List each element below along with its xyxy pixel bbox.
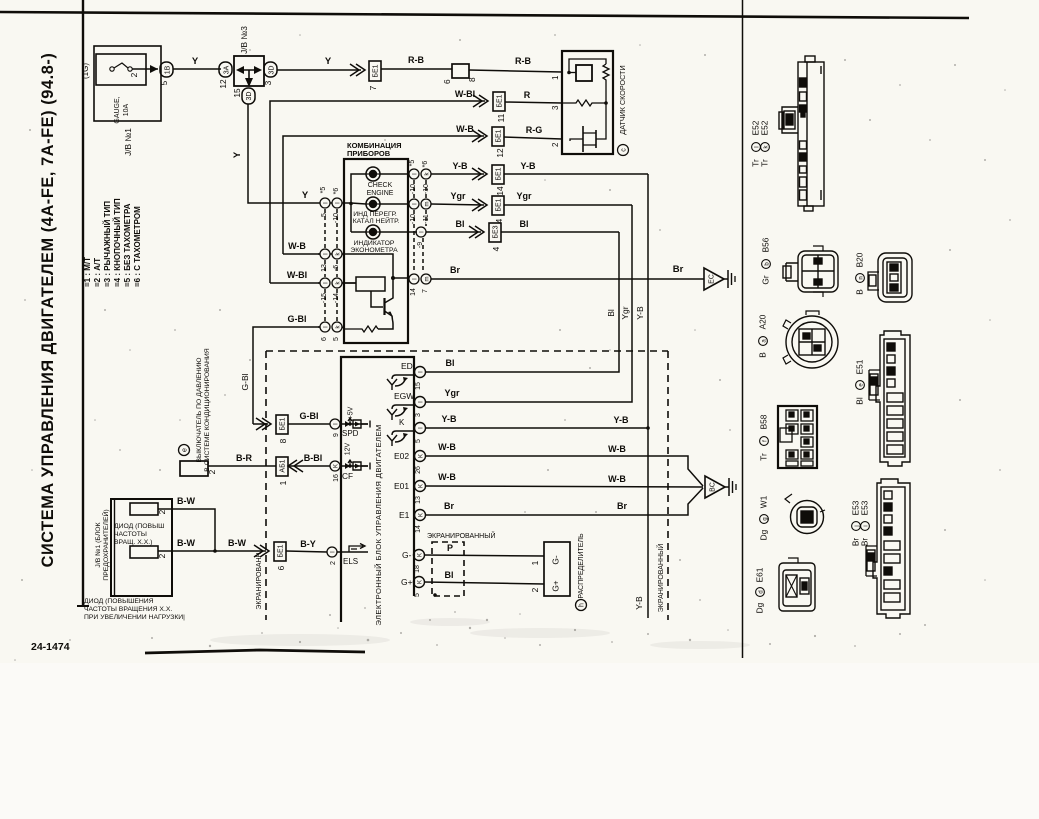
- svg-text:R-G: R-G: [526, 125, 543, 135]
- svg-text:E52: E52: [760, 120, 770, 135]
- wire W-B to cluster pin 13: [283, 253, 320, 255]
- svg-text:3A: 3A: [224, 65, 231, 74]
- svg-text:G-: G-: [551, 555, 561, 564]
- svg-text:26: 26: [415, 466, 422, 474]
- connector code e: [179, 445, 190, 456]
- svg-text:E53: E53: [860, 500, 870, 515]
- wire W-BI row (to sensor pin 3): [270, 89, 562, 283]
- svg-text:ПРИ УВЕЛИЧЕНИИ НАГРУЗКИ|: ПРИ УВЕЛИЧЕНИИ НАГРУЗКИ|: [84, 614, 185, 621]
- joint box: [452, 64, 469, 78]
- svg-text:G-Bl: G-Bl: [288, 314, 307, 324]
- svg-text:2: 2: [129, 72, 139, 77]
- wire G-Bl to SPD: [253, 406, 370, 455]
- svg-text:1: 1: [530, 560, 540, 565]
- svg-text:B: B: [855, 289, 865, 295]
- svg-text:5: 5: [333, 337, 340, 341]
- top border line: [0, 12, 969, 18]
- connector code h: [576, 600, 587, 611]
- wire W-B from E02 to BC ground: [426, 456, 703, 486]
- wire Bl from G+ to distributor pin 2: [424, 582, 544, 584]
- svg-text:B: B: [758, 352, 768, 358]
- svg-text:Y-B: Y-B: [520, 161, 536, 171]
- svg-text:R-B: R-B: [515, 56, 531, 66]
- junction block J/B No1 (top): [81, 46, 221, 156]
- svg-text:Ygr: Ygr: [450, 191, 466, 201]
- svg-text:Gr: Gr: [761, 275, 771, 284]
- svg-text:W-B: W-B: [608, 444, 626, 454]
- scan speckle noise: [14, 34, 1011, 661]
- svg-text:2: 2: [530, 587, 540, 592]
- svg-text:14: 14: [410, 288, 417, 296]
- svg-text:14: 14: [495, 186, 505, 196]
- svg-text:K: K: [418, 580, 424, 584]
- svg-text:Br: Br: [617, 501, 627, 511]
- svg-text:B-R: B-R: [236, 453, 252, 463]
- wire P from G- to distributor pin 1: [424, 555, 544, 556]
- wire G-Bl from cluster down to SPD row: [253, 327, 320, 424]
- wire Br from cluster to EC ground: [431, 278, 704, 280]
- svg-text:d: d: [759, 590, 765, 593]
- svg-text:3D: 3D: [269, 66, 276, 75]
- wire Ygr from catalyst lamp: [431, 204, 484, 205]
- vertical runs Bl Ygr Y-B: [426, 174, 650, 618]
- lamp CHECK ENGINE: [366, 167, 380, 181]
- svg-text:K: K: [334, 464, 340, 468]
- svg-text:БЕ1: БЕ1: [280, 417, 287, 430]
- svg-text:Dg: Dg: [755, 602, 765, 613]
- svg-text:Y-B: Y-B: [441, 414, 457, 424]
- svg-text:Bl: Bl: [456, 219, 465, 229]
- svg-text:ЧАСТОТЫ ВРАЩЕНИЯ Х.Х.: ЧАСТОТЫ ВРАЩЕНИЯ Х.Х.: [84, 606, 172, 613]
- svg-text:*6: *6: [333, 188, 340, 195]
- svg-text:ВЫКЛЮЧАТЕЛЬ ПО ДАВЛЕНИЮ: ВЫКЛЮЧАТЕЛЬ ПО ДАВЛЕНИЮ: [196, 357, 203, 462]
- wire G-Bl into connector BE1 pin 8: [253, 423, 268, 425]
- svg-text:Tr: Tr: [760, 159, 770, 167]
- svg-text:3: 3: [415, 413, 422, 417]
- svg-text:5: 5: [415, 439, 422, 443]
- svg-text:ИНДИКАТОР: ИНДИКАТОР: [354, 240, 395, 247]
- bottom marks: [31, 641, 365, 653]
- connector E53 drawing: [866, 479, 910, 618]
- svg-text:8: 8: [278, 438, 288, 443]
- svg-text:ДАТЧИК СКОРОСТИ: ДАТЧИК СКОРОСТИ: [618, 65, 627, 134]
- svg-text:K: K: [418, 553, 424, 557]
- svg-text:A20: A20: [758, 314, 768, 329]
- cluster left wires W-B W-BI G-Bl: [240, 241, 320, 424]
- svg-text:Y-B: Y-B: [613, 415, 629, 425]
- dashed columns: [324, 209, 326, 248]
- svg-text:e: e: [182, 448, 189, 452]
- svg-text:СИСТЕМА УПРАВЛЕНИЯ ДВИГАТЕЛЕМ: СИСТЕМА УПРАВЛЕНИЯ ДВИГАТЕЛЕМ (4A-FE, 7A…: [39, 53, 57, 568]
- svg-text:K: K: [419, 454, 425, 458]
- connector W1 drawing: [785, 494, 825, 534]
- svg-text:=6 : С ТАХОМЕТРОМ: =6 : С ТАХОМЕТРОМ: [133, 206, 142, 287]
- svg-text:13: 13: [415, 496, 422, 504]
- svg-text:J/B №1: J/B №1: [123, 128, 133, 156]
- ground BC: [705, 476, 725, 498]
- svg-text:8: 8: [467, 77, 477, 82]
- svg-text:Ygr: Ygr: [444, 388, 460, 398]
- left border line: [82, 0, 84, 606]
- svg-text:Bl: Bl: [445, 570, 454, 580]
- transistor subcircuit: [342, 254, 393, 278]
- junction block J/B No3: [218, 26, 277, 104]
- shield dashed box: [266, 351, 668, 620]
- legend: [83, 198, 142, 287]
- svg-text:В СИСТЕМЕ КОНДИЦИОНИРОВАНИЯ: В СИСТЕМЕ КОНДИЦИОНИРОВАНИЯ: [204, 348, 211, 472]
- lamp catalyst overheat: [366, 197, 380, 211]
- svg-text:G-: G-: [402, 550, 412, 560]
- svg-text:j: j: [855, 525, 861, 527]
- svg-text:10A: 10A: [123, 103, 130, 116]
- wire W-B from E01 to BC ground: [426, 486, 703, 487]
- wire Y from J/B No3 down to cluster: [248, 104, 320, 203]
- connector 3(3D) right: [264, 62, 277, 77]
- svg-text:Bl: Bl: [446, 358, 455, 368]
- ECU right pins: ED EGW K E02 E01 E1 G- G+: [387, 361, 426, 597]
- wire Y-B vertical run: [647, 174, 649, 618]
- svg-text:W-B: W-B: [438, 442, 456, 452]
- svg-text:Bl: Bl: [520, 219, 529, 229]
- svg-text:БЕ3: БЕ3: [493, 225, 500, 238]
- wire row Br from cluster to EC ground: [431, 264, 735, 290]
- svg-text:BC: BC: [710, 482, 717, 492]
- svg-text:1: 1: [278, 480, 288, 485]
- svg-text:=4 : КНОПОЧНЫЙ ТИП: =4 : КНОПОЧНЫЙ ТИП: [113, 198, 122, 287]
- W-B row pins: [320, 249, 330, 259]
- svg-text:K: K: [399, 418, 405, 427]
- A/C pressure switch: [179, 348, 218, 476]
- wires B-W to ELS: [158, 496, 368, 570]
- svg-text:АБ1: АБ1: [280, 459, 287, 472]
- svg-text:B-Bl: B-Bl: [304, 453, 323, 463]
- svg-text:E01: E01: [394, 481, 409, 491]
- svg-text:Y: Y: [192, 56, 199, 67]
- svg-text:6: 6: [442, 79, 452, 84]
- svg-text:B-W: B-W: [228, 538, 246, 548]
- svg-text:E61: E61: [755, 567, 765, 582]
- svg-text:K: K: [419, 484, 425, 488]
- svg-text:h: h: [579, 603, 586, 607]
- svg-text:i: i: [864, 525, 870, 526]
- svg-text:CHECK: CHECK: [368, 182, 393, 189]
- svg-text:=3 : РЫЧАЖНЫЙ ТИП: =3 : РЫЧАЖНЫЙ ТИП: [103, 201, 112, 287]
- wire Ygr vertical run to EGW: [426, 205, 632, 402]
- svg-text:W-B: W-B: [456, 124, 474, 134]
- svg-text:Tr: Tr: [759, 453, 769, 461]
- svg-text:Y: Y: [232, 151, 243, 158]
- svg-text:24-1474: 24-1474: [31, 641, 70, 653]
- svg-text:РАСПРЕДЕЛИТЕЛЬ: РАСПРЕДЕЛИТЕЛЬ: [578, 533, 585, 599]
- svg-text:12V: 12V: [345, 442, 352, 455]
- lamp bus: [351, 174, 366, 232]
- svg-text:ED: ED: [401, 361, 413, 371]
- svg-text:БЕ1: БЕ1: [496, 129, 503, 142]
- svg-text:Y-B: Y-B: [635, 306, 645, 320]
- svg-text:B-Y: B-Y: [300, 539, 316, 549]
- svg-text:2: 2: [330, 561, 337, 565]
- wire B-W from lower diode to BE1 pin 6: [158, 550, 266, 552]
- wire row Bl from cluster: [426, 219, 619, 251]
- svg-text:6: 6: [276, 565, 286, 570]
- svg-text:W1: W1: [759, 495, 769, 508]
- J/B No1 fuse block (bottom): [84, 499, 185, 621]
- W-BI row pins: [320, 278, 330, 288]
- wire R-B to joint box: [381, 55, 562, 84]
- svg-text:c: c: [621, 148, 628, 152]
- svg-text:18: 18: [414, 565, 421, 573]
- svg-text:ELS: ELS: [343, 557, 358, 566]
- svg-text:*5: *5: [409, 160, 416, 167]
- stubs across cluster edge: [330, 202, 332, 204]
- svg-text:Dg: Dg: [759, 529, 769, 540]
- svg-text:Y: Y: [302, 190, 309, 201]
- wire Br from E1 to BC ground: [426, 488, 703, 515]
- wires W-B W-B Br to BC ground: [426, 442, 736, 515]
- svg-text:ЭКРАНИРОВАНН: ЭКРАНИРОВАНН: [256, 552, 263, 609]
- wire W-B from cluster to BE1 pin 12: [283, 136, 484, 254]
- wire fuse to 1B with arrow: [132, 68, 158, 70]
- svg-text:G+: G+: [551, 580, 561, 591]
- Y row pins: [320, 198, 330, 208]
- svg-text:ДИОД (ПОВЫШЕНИЯ: ДИОД (ПОВЫШЕНИЯ: [84, 598, 154, 605]
- svg-text:6: 6: [321, 337, 328, 341]
- svg-text:G-Bl: G-Bl: [240, 373, 250, 390]
- wire B-W from upper diode: [158, 509, 215, 551]
- svg-text:Br: Br: [860, 538, 870, 547]
- instrument cluster box: [342, 141, 417, 343]
- svg-text:G+: G+: [401, 577, 413, 587]
- svg-text:ЭЛЕКТРОННЫЙ БЛОК УПРАВЛЕНИЯ ДВ: ЭЛЕКТРОННЫЙ БЛОК УПРАВЛЕНИЯ ДВИГАТЕЛЕМ: [374, 424, 383, 625]
- svg-text:1B: 1B: [165, 65, 172, 74]
- wire Y down from jb3 to cluster: [232, 104, 320, 203]
- svg-text:16: 16: [333, 474, 340, 482]
- G-Bl row pins: [320, 322, 330, 332]
- svg-text:БЕ1: БЕ1: [497, 94, 504, 107]
- internals: [567, 71, 571, 75]
- divider line: [742, 0, 744, 658]
- svg-text:P: P: [447, 543, 453, 553]
- svg-text:15: 15: [232, 88, 242, 98]
- connector B58 drawing: [778, 406, 817, 468]
- connector 12(3A): [219, 62, 232, 77]
- wire row Ygr from cluster: [431, 191, 632, 223]
- connector E51 drawing: [869, 331, 910, 466]
- diode lower: [130, 546, 158, 558]
- wire W-B row (to sensor pin 2): [283, 124, 562, 254]
- svg-text:1: 1: [551, 75, 560, 80]
- svg-text:m: m: [425, 277, 431, 282]
- connector 5(1B): [160, 62, 173, 77]
- svg-text:W-BI: W-BI: [455, 89, 475, 99]
- svg-text:J/B №1 (БЛОК: J/B №1 (БЛОК: [95, 522, 102, 567]
- svg-text:Y-B: Y-B: [634, 596, 644, 610]
- svg-text:Y-B: Y-B: [452, 161, 468, 171]
- wire Y jb3 to BE1: [277, 56, 381, 90]
- svg-text:3D: 3D: [246, 92, 253, 101]
- wire Y-B from CHECK ENGINE lamp: [431, 173, 484, 175]
- wire row Y-B from cluster: [431, 161, 648, 196]
- svg-text:E1: E1: [399, 510, 410, 520]
- speed sensor: [551, 51, 629, 156]
- svg-text:g: g: [763, 517, 769, 520]
- connector 15(3D) bottom: [242, 88, 255, 104]
- svg-text:ДИОД (ПОВЫШ: ДИОД (ПОВЫШ: [114, 523, 164, 530]
- svg-text:W-B: W-B: [288, 241, 306, 251]
- svg-text:14: 14: [415, 525, 422, 533]
- svg-text:12: 12: [218, 79, 228, 89]
- diode upper: [130, 503, 158, 515]
- ECU box: [341, 357, 414, 626]
- svg-text:SPD: SPD: [342, 429, 359, 438]
- svg-text:Br: Br: [673, 264, 684, 275]
- scan smudges: [210, 618, 750, 649]
- svg-text:КАТАЛ НЕЙТР.: КАТАЛ НЕЙТР.: [353, 216, 400, 225]
- svg-text:J/B №3: J/B №3: [239, 26, 249, 54]
- svg-text:GAUGE,: GAUGE,: [114, 96, 121, 123]
- svg-text:E51: E51: [855, 359, 865, 374]
- svg-text:W-B: W-B: [608, 474, 626, 484]
- wire W-BI to cluster pin 15: [270, 282, 320, 284]
- svg-text:2: 2: [551, 142, 560, 147]
- cluster left pins: [318, 187, 356, 341]
- svg-text:2: 2: [157, 553, 167, 558]
- svg-text:12: 12: [495, 148, 505, 158]
- svg-text:B20: B20: [855, 252, 865, 267]
- wire Y to J/B No3: [173, 68, 221, 70]
- arrows inside jb3: [238, 69, 260, 71]
- svg-text:Br: Br: [444, 501, 454, 511]
- svg-text:(1G): (1G): [81, 63, 90, 79]
- distributor box (РАСПРЕДЕЛИТЕЛЬ) pins 1,2: [544, 542, 570, 596]
- svg-text:Ygr: Ygr: [516, 191, 532, 201]
- wire Bl vertical run to ED: [426, 232, 619, 372]
- A/C pressure switch box pin 2: [180, 461, 208, 476]
- svg-text:EC: EC: [709, 274, 716, 284]
- svg-text:БЕ1: БЕ1: [373, 64, 380, 77]
- svg-text:ENGINE: ENGINE: [367, 190, 394, 197]
- svg-text:Bl: Bl: [855, 397, 865, 405]
- scan artifact thick line: [145, 650, 365, 653]
- right column connector labels: [751, 120, 870, 613]
- svg-text:9: 9: [333, 433, 340, 437]
- svg-text:B-W: B-W: [177, 496, 195, 506]
- svg-text:4: 4: [491, 246, 501, 251]
- svg-text:2: 2: [157, 509, 167, 514]
- svg-text:3: 3: [551, 105, 560, 110]
- svg-text:БЕ1: БЕ1: [496, 167, 503, 180]
- svg-text:ПРИБОРОВ: ПРИБОРОВ: [347, 149, 391, 158]
- lamp econometer: [366, 225, 380, 239]
- svg-text:БЕ1: БЕ1: [496, 198, 503, 211]
- svg-text:11: 11: [496, 113, 506, 122]
- svg-text:Y: Y: [325, 56, 332, 67]
- svg-text:БЕ1: БЕ1: [278, 544, 285, 557]
- svg-text:Ygr: Ygr: [620, 306, 630, 319]
- wire Y-B from K pin to junction: [426, 427, 648, 429]
- svg-text:5: 5: [159, 80, 169, 85]
- page frame: [0, 0, 969, 658]
- svg-text:G-BI: G-BI: [300, 411, 319, 421]
- svg-text:B-W: B-W: [177, 538, 195, 548]
- svg-text:CF: CF: [342, 471, 353, 481]
- svg-text:ВРАЩ. Х.Х.): ВРАЩ. Х.Х.): [114, 539, 152, 546]
- svg-text:B56: B56: [761, 237, 771, 252]
- distributor circuit: [424, 531, 587, 611]
- lamp wires to right pins: [380, 173, 409, 175]
- svg-text:+5V: +5V: [348, 406, 355, 419]
- connector E61 drawing: [779, 558, 815, 611]
- svg-text:ИНД ПЕРЕГР.: ИНД ПЕРЕГР.: [353, 211, 397, 218]
- svg-text:ЭКРАНИРОВАННЫЙ: ЭКРАНИРОВАННЫЙ: [427, 531, 495, 540]
- svg-text:*5: *5: [320, 187, 327, 194]
- svg-text:Bl: Bl: [606, 309, 616, 317]
- wire W-BI from cluster to BE1 pin 11: [270, 101, 485, 283]
- svg-text:3: 3: [263, 80, 273, 85]
- svg-text:*6: *6: [422, 161, 429, 168]
- wire Bl from econometer lamp: [426, 231, 481, 233]
- svg-text:15: 15: [415, 382, 422, 390]
- svg-text:=5 : БЕЗ ТАХОМЕТРА: =5 : БЕЗ ТАХОМЕТРА: [123, 203, 132, 287]
- connector BE1 (7): [369, 61, 381, 81]
- svg-text:R: R: [524, 90, 531, 100]
- svg-text:5: 5: [414, 593, 421, 597]
- svg-text:ЧАСТОТЫ: ЧАСТОТЫ: [114, 531, 147, 538]
- connector B56 drawing: [783, 246, 838, 297]
- svg-text:ЭКРАНИРОВАННЫЙ: ЭКРАНИРОВАННЫЙ: [656, 544, 665, 612]
- svg-text:Br: Br: [450, 265, 460, 275]
- svg-text:K: K: [419, 513, 425, 517]
- svg-text:W-B: W-B: [438, 472, 456, 482]
- connector B20 drawing: [868, 253, 912, 302]
- ground EC: [704, 268, 724, 290]
- connector A20 drawing: [783, 311, 838, 368]
- svg-text:7: 7: [368, 85, 378, 90]
- cluster right pins: [409, 160, 431, 296]
- svg-text:B58: B58: [759, 414, 769, 429]
- fuse GAUGE 10A: [110, 67, 114, 71]
- svg-text:=2 : А/Т: =2 : А/Т: [93, 258, 102, 287]
- svg-text:ПРЕДОХРАНИТЕЛЕЙ): ПРЕДОХРАНИТЕЛЕЙ): [101, 509, 110, 580]
- svg-text:E02: E02: [394, 451, 409, 461]
- svg-text:W-BI: W-BI: [287, 270, 307, 280]
- wire B-R to CF: [208, 453, 370, 485]
- wire B-R to connector AB1 pin 1: [208, 465, 276, 467]
- svg-text:R-B: R-B: [408, 55, 424, 65]
- connector E52 drawing: [779, 56, 824, 211]
- svg-text:m: m: [425, 202, 431, 207]
- svg-text:=1 : М/Т: =1 : М/Т: [83, 257, 92, 287]
- svg-text:n: n: [859, 276, 865, 279]
- svg-text:ЭКОНОМЕТРА: ЭКОНОМЕТРА: [350, 247, 398, 254]
- svg-text:EGW: EGW: [394, 391, 414, 401]
- svg-text:7: 7: [422, 289, 429, 293]
